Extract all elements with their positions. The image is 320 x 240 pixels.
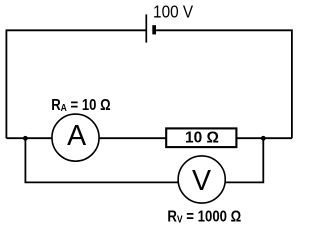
node A junction dot (left): [23, 136, 28, 141]
wire from left side to ammeter: [6, 137, 53, 139]
wire from battery positive plate left along top and down left side to node A: [6, 30, 146, 138]
voltmeter V circle: [178, 156, 225, 203]
ammeter A1 circle: [52, 114, 99, 161]
wire from battery negative plate right along top and down right side to node B: [156, 30, 292, 138]
wire from resistor to right side through node B: [236, 137, 292, 139]
wire from node A down and right to voltmeter: [25, 138, 178, 182]
wire from voltmeter right and up to node B: [225, 138, 263, 182]
node B junction dot (right): [261, 136, 266, 141]
svg-text:A: A: [67, 120, 86, 152]
resistor R box: [166, 128, 236, 147]
svg-text:RA = 10 Ω: RA = 10 Ω: [51, 97, 111, 114]
battery V1 long plate (positive): [145, 14, 147, 42]
wire from ammeter to resistor R: [99, 137, 167, 139]
svg-text:10 Ω: 10 Ω: [185, 130, 219, 147]
battery V1 short thick plate (negative): [152, 25, 156, 34]
svg-text:V: V: [192, 165, 211, 197]
svg-text:100 V: 100 V: [153, 2, 193, 22]
